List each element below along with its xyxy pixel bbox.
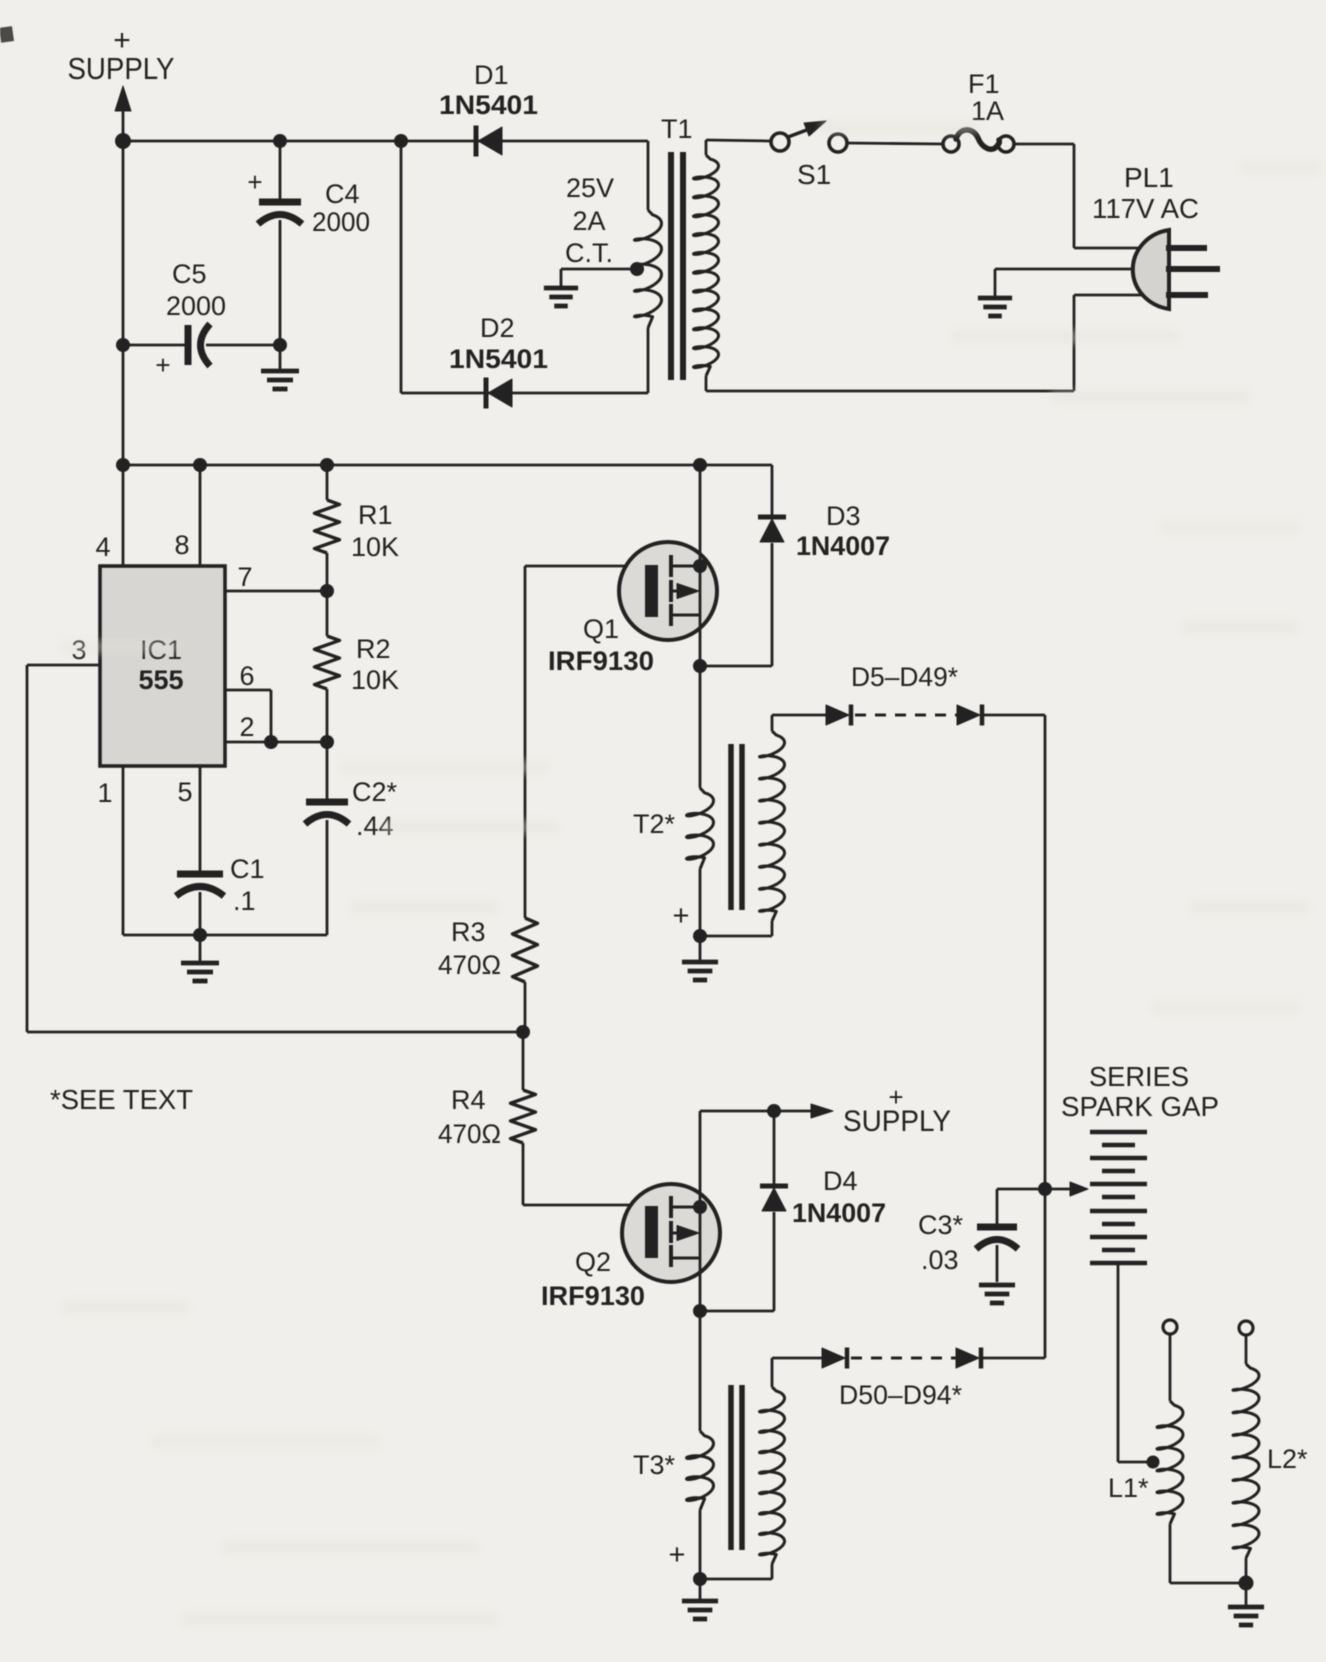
wire T3 to D50 <box>772 1357 822 1360</box>
wire Q2 drain up to supply corner <box>699 1111 702 1184</box>
wire main rail y=465 <box>123 464 772 467</box>
T1 left winding <box>635 210 662 328</box>
Q1 drain/source vertical <box>699 465 702 666</box>
svg-text:2A: 2A <box>572 206 605 236</box>
plug PL1 117V AC <box>1133 230 1169 309</box>
diodes D5-D49 <box>826 705 849 725</box>
svg-text:10K: 10K <box>351 532 399 562</box>
T1 center tap wire <box>561 268 644 271</box>
pin 8 wire <box>199 465 202 566</box>
svg-text:1N5401: 1N5401 <box>449 344 548 374</box>
svg-text:C.T.: C.T. <box>565 238 613 268</box>
svg-text:2000: 2000 <box>312 207 370 237</box>
IC1 555 body <box>100 566 225 766</box>
svg-text:10K: 10K <box>351 665 399 695</box>
ground (IC1/C1) <box>199 935 202 961</box>
svg-text:25V: 25V <box>566 173 614 203</box>
diode D3 1N4007 <box>771 465 774 517</box>
svg-text:R1: R1 <box>358 500 393 530</box>
wire spark gap bottom to L1 tap <box>1117 1263 1120 1462</box>
wire T1 to S1 <box>706 140 771 141</box>
svg-text:C3*: C3* <box>918 1210 964 1240</box>
wire D5 chain down right side <box>1044 715 1047 1358</box>
node D1 branch junction <box>394 134 408 148</box>
svg-text:D3: D3 <box>826 501 861 531</box>
T3 core <box>728 1385 734 1550</box>
svg-text:117V AC: 117V AC <box>1092 193 1199 224</box>
inductor L1 <box>1163 1320 1177 1334</box>
wire plug middle prong to ground <box>995 268 1150 271</box>
pin 7 wire <box>225 590 327 593</box>
pin 1 wire <box>122 766 125 935</box>
diode D4 1N4007 <box>773 1111 776 1186</box>
svg-text:8: 8 <box>174 530 189 560</box>
svg-text:D4: D4 <box>823 1166 858 1196</box>
wire F1 to corner, down to plug <box>1014 143 1074 146</box>
ground (below C4/C5) <box>279 345 282 369</box>
svg-text:T1: T1 <box>661 114 693 144</box>
T1 right winding <box>705 140 708 155</box>
ground (L2) <box>1245 1583 1248 1605</box>
svg-text:6: 6 <box>239 661 254 691</box>
svg-text:C1: C1 <box>230 854 265 884</box>
switch S1 <box>771 133 789 151</box>
resistor R3 470 <box>524 566 527 918</box>
svg-text:SPARK GAP: SPARK GAP <box>1061 1091 1219 1122</box>
ground (T2) <box>699 936 702 960</box>
svg-text:C5: C5 <box>172 259 207 289</box>
svg-text:2: 2 <box>239 712 254 742</box>
svg-text:.1: .1 <box>233 886 256 916</box>
svg-text:5: 5 <box>177 777 192 807</box>
supply arrow near Q2 <box>700 1110 774 1113</box>
fuse F1 1A <box>943 136 959 152</box>
T3 left winding <box>687 1431 714 1510</box>
wire pin3 run down-left <box>26 665 29 1032</box>
svg-text:4: 4 <box>95 532 110 562</box>
svg-text:D5–D49*: D5–D49* <box>851 662 958 692</box>
page artifact top-left <box>0 26 14 43</box>
svg-text:IRF9130: IRF9130 <box>548 646 654 676</box>
node supply-left junction <box>115 133 131 149</box>
+SUPPLY arrowhead (top left) <box>115 86 131 111</box>
capacitor C1 .1 <box>177 871 223 878</box>
resistor R2 10K <box>326 591 329 636</box>
svg-text:PL1: PL1 <box>1124 162 1174 193</box>
capacitor C5 <box>123 344 187 347</box>
svg-text:+: + <box>673 900 690 932</box>
T2 right winding <box>700 935 772 938</box>
wire plug bottom prong, down, to T1 bottom <box>1074 294 1150 297</box>
ground (C3) <box>979 1283 1015 1288</box>
ground (T3) <box>699 1579 702 1599</box>
svg-text:T3*: T3* <box>633 1450 676 1480</box>
svg-text:555: 555 <box>138 665 183 695</box>
svg-text:S1: S1 <box>797 159 831 190</box>
svg-text:1N4007: 1N4007 <box>792 1198 886 1228</box>
svg-text:2000: 2000 <box>166 291 226 321</box>
svg-text:+: + <box>155 350 170 380</box>
inductor L2 <box>1239 1321 1253 1335</box>
svg-text:R4: R4 <box>451 1085 486 1115</box>
T1 core <box>668 152 674 380</box>
T1 primary-side vertical leads <box>647 141 650 210</box>
svg-text:1N5401: 1N5401 <box>439 90 538 120</box>
svg-text:C4: C4 <box>325 179 360 209</box>
svg-text:1N4007: 1N4007 <box>796 531 890 561</box>
diodes D50-D94 <box>822 1348 845 1368</box>
wire D1/D2 left vertical <box>400 141 403 393</box>
svg-text:SERIES: SERIES <box>1089 1061 1189 1092</box>
ground (PL1) <box>978 296 1012 301</box>
diode D1 1N5401 <box>474 126 479 157</box>
svg-text:IRF9130: IRF9130 <box>541 1281 645 1311</box>
wire top rail y=141 <box>123 140 648 143</box>
svg-text:C2*: C2* <box>352 777 398 807</box>
svg-text:D2: D2 <box>480 313 515 343</box>
node spark gap junction <box>1038 1182 1052 1196</box>
svg-text:1: 1 <box>97 778 112 808</box>
svg-text:L2*: L2* <box>1267 1444 1308 1474</box>
svg-text:T2*: T2* <box>633 809 676 839</box>
capacitor C4 <box>279 141 282 200</box>
wire S1 to F1 <box>847 143 943 144</box>
svg-text:.03: .03 <box>921 1245 959 1275</box>
svg-text:*SEE TEXT: *SEE TEXT <box>50 1084 193 1115</box>
wire left vertical x=123 (supply to rail) <box>122 141 125 465</box>
svg-text:L1*: L1* <box>1108 1473 1149 1503</box>
pin 5 wire <box>199 766 202 872</box>
pin 4 wire <box>122 465 125 566</box>
series spark gap <box>1045 1188 1077 1191</box>
svg-text:470Ω: 470Ω <box>438 1119 501 1149</box>
pin 6 wire <box>225 689 271 692</box>
svg-text:D50–D94*: D50–D94* <box>839 1380 962 1410</box>
svg-text:SUPPLY: SUPPLY <box>68 51 175 86</box>
wire R3 to Q1 gate <box>525 565 646 568</box>
transistor Q2 IRF9130 <box>622 1184 720 1282</box>
svg-text:+: + <box>669 1539 686 1571</box>
node R3/R4 junction <box>516 1025 530 1039</box>
wire bottom D2 row <box>401 392 648 395</box>
pin 2 wire <box>225 741 327 744</box>
svg-text:R3: R3 <box>451 917 486 947</box>
pin 3 wire <box>27 664 100 667</box>
svg-text:470Ω: 470Ω <box>438 950 501 980</box>
capacitor C2 .44 <box>326 742 329 800</box>
capacitor C3 .03 <box>997 1188 1045 1191</box>
T3 right winding <box>700 1578 772 1581</box>
diode D2 1N5401 <box>484 378 489 409</box>
svg-text:D1: D1 <box>474 60 509 90</box>
transistor Q1 IRF9130 <box>619 542 717 640</box>
wire T2 to D5 <box>772 714 826 717</box>
T2 core <box>728 744 734 910</box>
svg-text:R2: R2 <box>356 634 391 664</box>
resistor R4 470 <box>522 1032 525 1090</box>
svg-text:Q1: Q1 <box>583 614 619 644</box>
svg-text:Q2: Q2 <box>575 1247 611 1277</box>
svg-text:7: 7 <box>237 562 252 592</box>
svg-text:F1: F1 <box>968 69 1000 99</box>
ground (T1 center tap) <box>544 286 578 291</box>
wire supply arrow vertical <box>122 98 125 141</box>
T2 left winding <box>687 788 714 869</box>
resistor R1 10K <box>326 465 329 500</box>
svg-text:+: + <box>247 167 262 197</box>
svg-text:SUPPLY: SUPPLY <box>843 1105 951 1138</box>
wire bottom rail under IC <box>123 934 327 937</box>
